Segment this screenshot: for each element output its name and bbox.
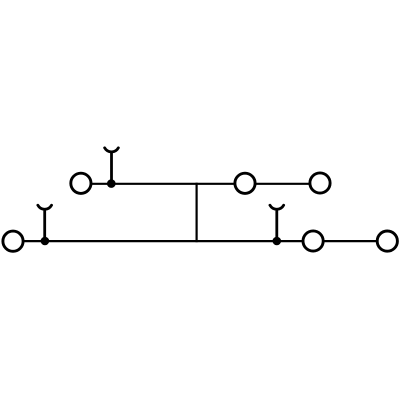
- test tap top: [105, 148, 119, 184]
- terminal D (bottom-left): [3, 231, 23, 251]
- wire top rail: [81, 183, 320, 185]
- wire cross-connection: [196, 183, 198, 243]
- terminal B (top-middle): [235, 173, 255, 193]
- node junction bottom-right: [273, 237, 282, 246]
- terminal E (bottom-middle): [303, 231, 323, 251]
- terminal F (bottom-right): [377, 231, 397, 251]
- terminal C (top-right): [310, 173, 330, 193]
- node junction bottom-left: [41, 237, 50, 246]
- node junction top: [107, 179, 116, 188]
- terminal A (top-left): [71, 173, 91, 193]
- test tap bottom-right: [270, 205, 284, 241]
- test tap bottom-left: [38, 205, 52, 241]
- wire bottom rail: [13, 240, 387, 242]
